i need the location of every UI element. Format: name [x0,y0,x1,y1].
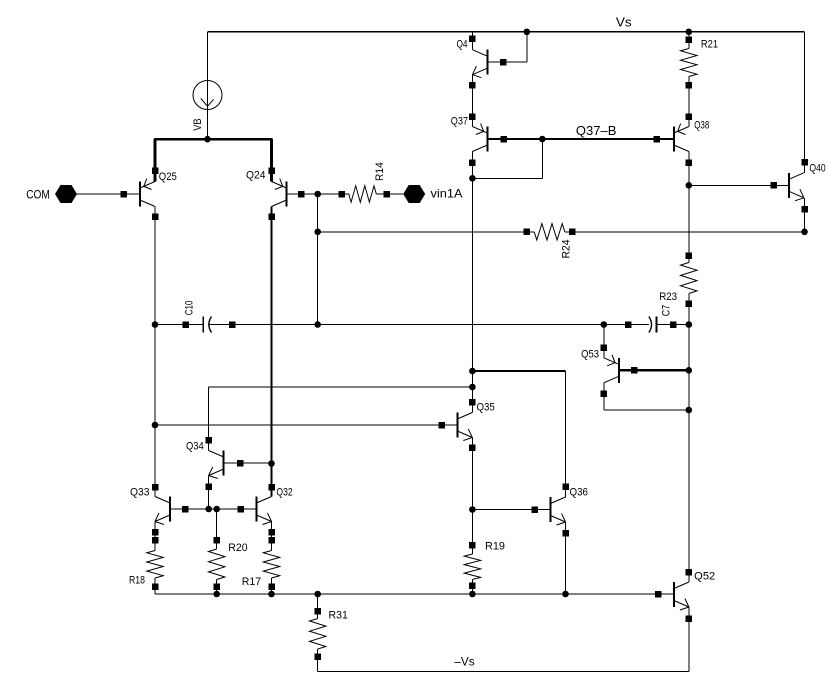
wire R20 drop [216,509,218,549]
wire Q37 collector [471,152,473,179]
pin Q32 collector [268,484,275,491]
resistor R18 [147,537,163,594]
transistor Q24 [272,179,287,207]
pin Q52 collector [686,569,693,576]
junction R19 rail [469,591,476,598]
junction rail R31 [314,591,321,598]
node R20 label [228,542,247,554]
svg-text:Vs: Vs [616,15,632,29]
node Q4 label [457,38,468,50]
wire C7 to x688 [657,324,689,326]
wire COM to Q25 base [77,193,140,195]
pin Q37 base [500,136,507,143]
pin Q37 collector [469,159,476,166]
node Q53 label [581,349,599,361]
svg-text:C7: C7 [661,305,673,316]
pin Q25 base [120,191,127,198]
svg-text:Q35: Q35 [477,402,495,414]
resistor R23 [681,252,697,324]
svg-text:COM: COM [26,187,50,201]
junction R21 Vs [686,29,693,36]
wire Q37 diode link [472,139,542,178]
node Q40 label [809,163,825,175]
node R19 label [485,541,505,553]
pin Q36 emitter [562,530,569,537]
svg-text:Q52: Q52 [694,571,715,583]
junction x155 y425 [152,422,159,429]
junction Q34 base end [268,460,275,467]
pin Q53 emitter [601,344,608,351]
node Q37 label [451,115,468,127]
wire Q53 base [619,369,689,371]
wire C10 to C7 [209,324,649,326]
wire emitter rail [154,138,273,141]
transistor Q32 [257,497,272,525]
node Q36 label [570,487,588,499]
pin Q24 emitter [268,167,275,174]
pin Q24 base [298,191,305,198]
wire x688 down to Q52 [688,410,690,582]
junction y387 end [469,384,476,391]
svg-text:Q32: Q32 [276,486,292,498]
junction base-R20 [213,506,220,513]
pin Q52 emitter [686,615,693,622]
svg-text:Q38: Q38 [694,119,709,131]
wire Q38c to Q40 base [689,184,789,186]
junction node317 y232 [314,229,321,236]
wire Q38 collector [688,152,690,186]
wire Q32 emitter [271,522,273,551]
wire x155 mid [154,325,156,497]
current source VB [192,81,222,131]
node R14 label [374,162,386,181]
junction Q53 emitter node [601,321,608,328]
junction R23 C7 [686,321,693,328]
wire x688 to R23 [688,185,690,262]
resistor R24 [524,224,576,240]
node Q24 label [246,170,266,182]
transistor Q38 [674,124,689,152]
wire Q25 emitter [154,139,157,182]
junction rail R20 [213,591,220,598]
wire Q34 collector [208,387,210,451]
capacitor C10 [203,317,211,333]
transistor Q25 [140,179,155,207]
wire x472 column [471,178,473,412]
wire Q24 emitter [270,139,273,182]
node R24 label [560,240,572,259]
pin Q40 emitter [801,206,808,213]
wire Q34 base [224,462,272,464]
pin Q53 collector [601,390,608,397]
wire Vs rail [208,31,805,33]
svg-text:R14: R14 [374,162,386,181]
wire Q25 collector [154,207,156,325]
wire Q40 emitter [804,198,806,232]
pin Q34 base [237,460,244,467]
junction Q38 collector node [686,182,693,189]
junction node317 C-line [314,321,321,328]
wire x688 Q53base to Q53coll [688,370,690,410]
transistor Q34 [209,451,224,479]
junction C-line left [152,321,159,328]
wire Q34 emitter [208,476,210,510]
node vin1A label [431,187,463,201]
transistor Q4 [472,50,487,78]
wire Q35 emitter [471,438,473,510]
wire thick371 [472,370,565,372]
junction rail-VB [204,136,211,143]
node R23 label [659,291,677,303]
svg-text:Q25: Q25 [159,171,177,183]
pin Q36 collector [562,483,569,490]
transistor Q36 [551,497,566,525]
node R31 label [329,609,348,621]
pin Q34 emitter [205,483,212,490]
svg-text:Q36: Q36 [570,487,588,499]
node C7 label [661,305,673,316]
node Q52 label [694,571,715,583]
pin Q33 base [182,506,189,513]
pin Q35 base [438,422,445,429]
node Vs label [616,15,632,29]
wire Q53 emitter [603,325,605,358]
wire Q24 base [287,193,342,195]
svg-text:R19: R19 [485,541,505,553]
port COM [55,185,77,203]
wire Q33-Q32 base [170,508,257,510]
wire x688 C7 to Q53base [688,325,690,371]
resistor R20 [209,537,225,594]
node -Vs label [454,654,474,668]
svg-text:VB: VB [192,118,204,130]
pin C10 right [229,321,236,328]
pin Q34 top [205,437,212,444]
node Q32 label [276,486,292,498]
junction Q35e node [469,506,476,513]
junction Q24 base node [314,191,321,198]
svg-text:Q37–B: Q37–B [576,123,617,138]
svg-text:R23: R23 [659,291,677,303]
pin Q32 base [237,506,244,513]
wire y425 [155,424,457,426]
node Q35 label [477,402,495,414]
wire C-line to C10 [155,324,203,326]
wire y232 right [572,231,804,233]
pin C7 left [625,321,632,328]
pin Q24 collector [268,213,275,220]
wire Q4 base [487,32,526,62]
wire y387 [209,386,473,388]
pin Q53 base [631,367,638,374]
transistor Q33 [155,497,170,525]
svg-text:Q37: Q37 [451,115,468,127]
node Q34 label [186,440,204,452]
transistor Q52 [674,582,689,610]
wire Q40 collector [804,32,806,173]
wire -Vs return [318,607,689,671]
wire Q33 emitter [154,522,156,551]
junction thick371 [469,368,476,375]
svg-text:R31: R31 [329,609,348,621]
wire Q36 emitter [565,522,567,594]
node Q33 label [130,486,150,498]
transistor Q35 [457,413,472,441]
pin Q4 collector [469,36,476,43]
svg-text:R17: R17 [242,576,261,588]
svg-text:Q53: Q53 [581,349,599,361]
svg-text:Q40: Q40 [809,163,825,175]
pin Q33 collector [152,484,159,491]
pin Q38 base [653,136,660,143]
wire Q53 collector [604,383,689,410]
node R18 label [129,575,145,587]
svg-text:–Vs: –Vs [454,654,474,668]
pin Q32 emitter [268,529,275,536]
resistor R19 [464,542,480,594]
pin Q35 collector [469,399,476,406]
wire Q35e to R19 [471,510,473,555]
wire node317 vertical [317,194,319,325]
node C10 label [184,301,196,316]
pin Q52 base [655,591,662,598]
wire VB branch [207,32,209,139]
wire Q36 base [472,509,550,511]
wire Q37-B line [487,138,674,140]
svg-text:R20: R20 [228,542,247,554]
junction Q37-B [539,136,546,143]
resistor R14 [338,186,390,202]
node R21 label [701,38,718,50]
pin Q33 emitter [152,529,159,536]
pin Q4 base [500,59,507,65]
junction rail R17 [268,591,275,598]
transistor Q40 [789,173,804,201]
resistor R21 [681,32,697,88]
wire R14 to vin1A [387,193,403,195]
svg-text:R21: R21 [701,38,718,50]
wire bottom rail [155,593,674,595]
junction Q37 collector node [469,175,476,182]
pin C7 right [670,321,677,328]
port vin1A [403,185,425,203]
svg-text:Q34: Q34 [186,440,204,452]
pin Q36 base [531,506,538,513]
svg-text:Q24: Q24 [246,170,266,182]
pin Q25 emitter [152,167,159,174]
node Q37-B label [576,123,617,138]
junction Q36e rail [562,591,569,598]
pin Q25 collector [152,213,159,220]
wire Q36 collector drop [565,371,567,498]
junction Q4 base Vs [524,29,531,36]
node R17 label [242,576,261,588]
pin Q38 collector [686,159,693,166]
svg-text:Q33: Q33 [130,486,150,498]
svg-text:C10: C10 [184,301,196,316]
node COM label [26,187,50,201]
junction Q53 collector node [686,407,693,414]
pin Q40 collector [801,159,808,166]
svg-text:vin1A: vin1A [431,187,463,201]
svg-text:R18: R18 [129,575,145,587]
capacitor C7 [649,317,657,333]
pin C10 left [182,321,189,328]
wire Q4-Q37 emitters [471,75,473,127]
svg-text:Q4: Q4 [457,38,468,50]
pin Q40 base [770,182,777,189]
junction y232 Q40emitter [801,229,808,236]
wire R21 to Q38 [688,85,690,127]
wire y232 left [318,231,527,233]
node Q25 label [159,171,177,183]
junction Q53 base node [686,367,693,374]
pin Q37 emitter [469,113,476,120]
transistor Q37 [472,124,487,152]
pin Q4 emitter [469,82,476,89]
wire Q4 collector [471,32,473,50]
pin Q38 emitter [686,113,693,120]
pin Q35 emitter [469,444,476,451]
wire Q24 collector column [270,207,272,497]
resistor R31 [310,594,326,660]
resistor R17 [263,537,279,594]
transistor Q53 [604,355,619,383]
node Q38 label [694,119,709,131]
svg-text:R24: R24 [560,240,572,259]
junction base-Q34e [205,506,212,513]
